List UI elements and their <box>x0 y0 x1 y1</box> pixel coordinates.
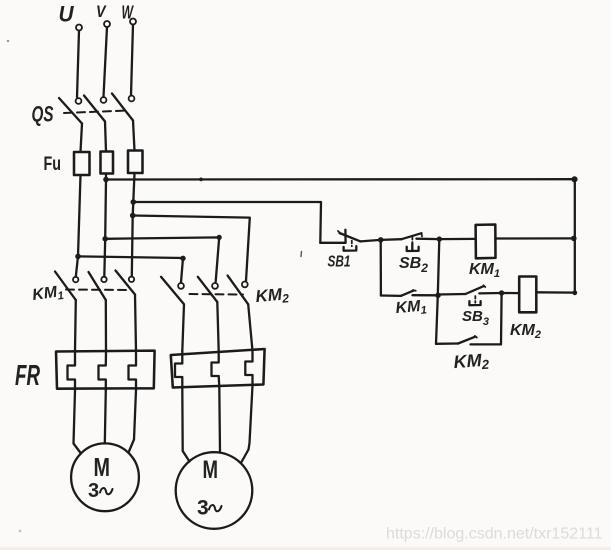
svg-text:SB2: SB2 <box>399 255 428 275</box>
wire V feeder <box>104 175 106 277</box>
contact KM1 aux blade tick <box>413 289 416 292</box>
wire motor2 lead right <box>242 386 253 463</box>
button SB1 left wire <box>320 242 345 244</box>
FR2 heater element 2 <box>212 351 220 387</box>
button SB1 cap <box>344 246 357 251</box>
FR2 heater element 1 <box>175 351 182 388</box>
wire SB3 dot down <box>500 293 503 344</box>
svg-text:M: M <box>94 452 111 482</box>
svg-text:FR: FR <box>15 360 40 392</box>
wire KM2 pole1 to FR2 <box>182 304 184 351</box>
contactor KM1 pole 2 circle <box>101 277 106 282</box>
terminal W circle <box>130 19 136 25</box>
coil KM2 <box>519 277 536 313</box>
fuse FU1 <box>74 152 90 175</box>
FR2 heater element 3 <box>245 351 252 386</box>
wire W to QS <box>131 25 133 96</box>
contactor KM1 pole 1 circle <box>73 277 78 282</box>
button SB1 right wire <box>361 240 381 242</box>
node top right corner dot <box>571 176 577 182</box>
svg-text:KM2: KM2 <box>510 322 541 341</box>
svg-text:KM1: KM1 <box>469 261 500 280</box>
wire rail A vertical <box>436 239 439 344</box>
contactor KM1 pole 2 blade <box>89 272 106 300</box>
contactor KM2 linkage dashed <box>190 293 244 296</box>
svg-text:KM1: KM1 <box>395 297 428 319</box>
wire motor2 lead mid <box>218 387 221 452</box>
svg-text:SB1: SB1 <box>328 254 351 271</box>
contactor KM2 pole 2 blade <box>198 277 218 302</box>
button SB2 cap <box>407 243 419 251</box>
paper speck bottom left <box>19 530 22 533</box>
switch QS pole 1 circle <box>76 98 82 104</box>
switch QS pole 2 blade <box>84 96 105 122</box>
contactor KM2 pole 1 circle <box>178 283 184 289</box>
thermal relay box 2 <box>171 349 265 388</box>
button SB3 cap <box>469 301 480 305</box>
node branch corner dot <box>180 256 185 261</box>
node right rail mid dot <box>571 236 577 242</box>
contact KM2 hold left wire <box>436 342 458 345</box>
svg-text:https://blog.csdn.net/txr15211: https://blog.csdn.net/txr152111 <box>386 526 603 543</box>
wire KM1 pole1 to FR <box>74 300 77 351</box>
wire KM1 coil to rail <box>496 237 574 239</box>
coil KM1 <box>476 225 496 259</box>
terminal U circle <box>76 25 82 31</box>
contact KM1 aux left wire <box>381 294 401 297</box>
wire motor1 lead left <box>74 391 82 454</box>
stray speck top left <box>7 40 9 42</box>
wire KM2 pole2 to FR2 <box>217 302 218 351</box>
wire branch V to KM2 pole2 <box>105 237 219 281</box>
stray mark 1 <box>300 252 303 257</box>
contactor KM2 label <box>255 284 290 308</box>
wire branch U to KM2 pole1 <box>78 256 183 282</box>
wire right rail <box>574 179 576 293</box>
contact KM2 hold blade tick <box>475 336 477 338</box>
contactor KM1 pole 3 blade <box>116 271 136 295</box>
button SB2 left wire <box>381 238 402 241</box>
wire motor1 lead mid <box>105 390 106 444</box>
svg-text:QS: QS <box>32 102 54 127</box>
node SB3 output dot <box>499 290 504 295</box>
node SB1 output dot <box>378 237 384 243</box>
contactor KM2 pole 1 blade <box>161 277 184 305</box>
node SB2 output dot <box>437 236 442 241</box>
contactor KM1 linkage dashed <box>66 289 130 292</box>
wire KM2 coil to rail <box>536 291 575 294</box>
svg-text:KM2: KM2 <box>453 350 490 374</box>
switch QS pole 3 circle <box>129 96 135 102</box>
wire branch W to KM2 pole3 <box>133 216 250 281</box>
wire QS3 to FU3 <box>133 121 135 151</box>
contact KM2 hold label <box>453 350 490 374</box>
fuse FU3 <box>128 151 143 174</box>
wire motor2 lead left <box>182 388 189 462</box>
contactor KM1 label <box>31 283 64 306</box>
svg-text:3: 3 <box>88 480 99 502</box>
wire SB1 dot down to KM1 aux <box>380 240 382 296</box>
contactor KM2 pole 3 circle <box>242 282 248 288</box>
button SB2 blade tick <box>421 233 424 236</box>
button SB1 plunger dash <box>351 241 353 246</box>
svg-text:KM2: KM2 <box>255 284 290 308</box>
node KM1 aux dot <box>435 293 441 299</box>
switch QS linkage dashed <box>64 111 128 114</box>
svg-text:W: W <box>122 3 135 23</box>
switch QS pole 2 circle <box>101 97 107 103</box>
wire to KM1 coil <box>439 238 475 241</box>
wire V to QS <box>104 27 108 97</box>
button SB3 plunger dash <box>474 296 476 303</box>
wire U feeder <box>76 175 81 277</box>
button SB1 blade tail <box>338 231 341 234</box>
contactor KM2 pole 3 blade <box>228 276 249 305</box>
svg-text:M: M <box>203 456 219 484</box>
fuse FU2 <box>101 152 114 174</box>
button SB2 blade <box>402 233 422 239</box>
wire W feeder <box>132 173 135 276</box>
node stray dot on top line <box>199 178 203 182</box>
contactor KM1 pole 1 blade <box>55 272 76 301</box>
button SB2 right wire <box>416 238 439 241</box>
wire control line top <box>106 178 575 181</box>
motor M2 circle <box>176 452 253 529</box>
wire control feed to SB1 <box>133 202 321 243</box>
wire KM2 pole3 to FR2 <box>248 304 252 351</box>
svg-text:3: 3 <box>197 497 209 520</box>
node U branch dot <box>75 254 81 260</box>
button SB3 left wire <box>438 293 466 296</box>
svg-text:Fu: Fu <box>44 154 62 175</box>
wire KM1 pole3 to FR <box>135 295 136 352</box>
paper bottom tint <box>0 547 611 550</box>
contactor KM2 pole 2 circle <box>212 283 218 289</box>
FR heater element 1 <box>68 351 76 391</box>
node W branch dot <box>130 213 136 219</box>
contact KM1 aux label <box>395 297 428 319</box>
contactor KM1 pole 3 circle <box>129 277 134 282</box>
contact KM2 hold right wire <box>471 343 501 345</box>
wire QS2 to FU2 <box>105 122 106 152</box>
button SB3 blade tick <box>484 285 486 287</box>
svg-text:KM1: KM1 <box>31 283 64 306</box>
contact KM1 aux right wire <box>413 294 439 296</box>
terminal V circle <box>104 21 110 27</box>
wire to KM2 coil <box>502 292 520 294</box>
button SB2 plunger dash <box>411 237 413 243</box>
node W control dot <box>131 199 137 205</box>
switch QS pole 1 blade <box>59 98 82 124</box>
node V branch dot <box>102 236 108 242</box>
node right rail bottom dot <box>572 290 577 295</box>
node L4 corner dot <box>217 235 222 240</box>
button SB1 fixed tick <box>344 230 347 243</box>
wire KM1 pole2 to FR <box>105 300 107 351</box>
node V control dot <box>103 177 109 183</box>
thermal relay FR box 1 <box>56 351 155 389</box>
wire QS1 to FU1 <box>81 124 83 153</box>
wire motor1 lead right <box>129 390 137 453</box>
contact KM1 aux blade <box>401 291 414 296</box>
FR heater element 3 <box>129 351 137 390</box>
button SB3 blade <box>466 286 484 294</box>
button SB3 right wire <box>479 292 501 295</box>
svg-text:SB3: SB3 <box>462 308 489 328</box>
wire U to QS <box>77 31 79 98</box>
switch QS pole 3 blade <box>112 94 133 121</box>
FR heater element 2 <box>99 351 107 390</box>
contact KM2 hold blade <box>458 337 475 344</box>
svg-text:V: V <box>96 2 107 21</box>
svg-text:U: U <box>59 2 75 27</box>
motor M1 circle <box>71 443 139 511</box>
button SB1 blade <box>340 233 361 241</box>
